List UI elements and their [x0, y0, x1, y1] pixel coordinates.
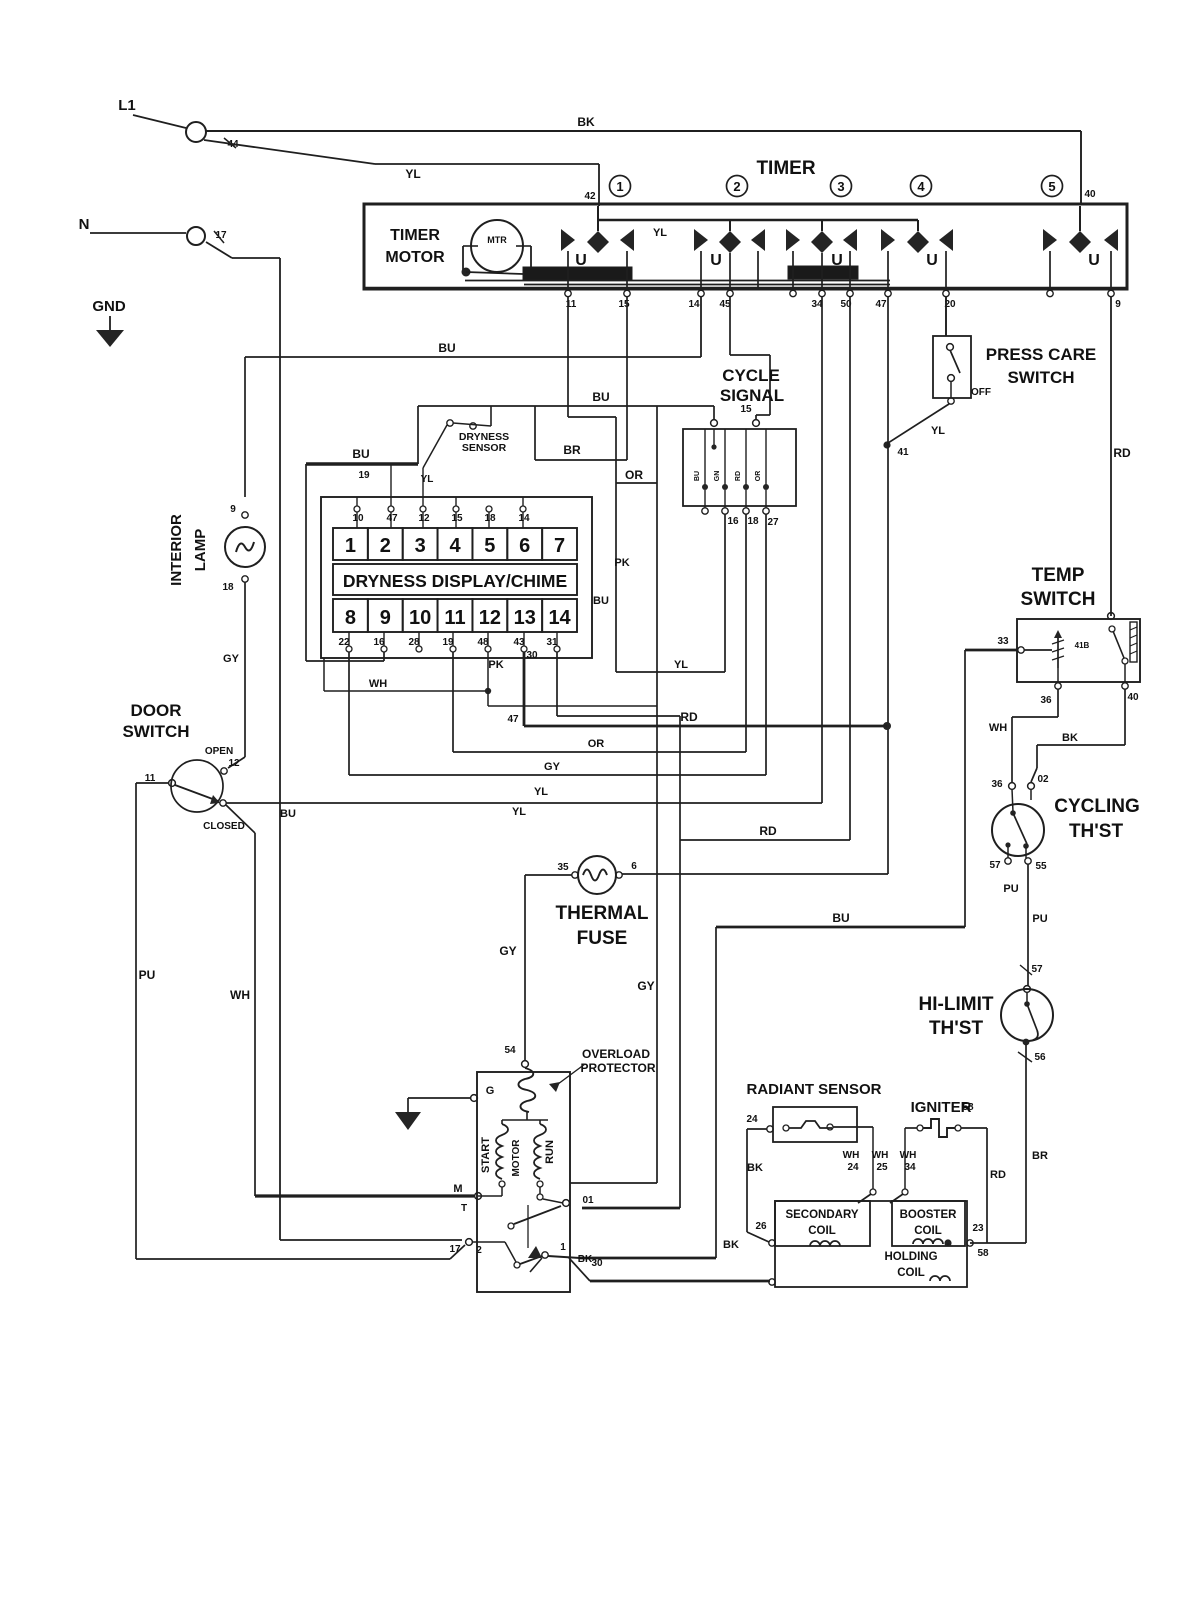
svg-text:L1: L1 [118, 97, 136, 114]
wire RD from timer cam 5 to temp switch [1110, 297, 1112, 616]
svg-text:10: 10 [409, 607, 431, 629]
svg-text:47: 47 [507, 714, 519, 725]
svg-text:6: 6 [519, 535, 530, 557]
motor box [477, 1072, 570, 1292]
svg-text:SWITCH: SWITCH [1021, 589, 1096, 610]
svg-text:12: 12 [479, 607, 501, 629]
svg-text:TEMP: TEMP [1032, 565, 1085, 586]
svg-text:PROTECTOR: PROTECTOR [580, 1061, 655, 1075]
svg-text:U: U [710, 252, 722, 269]
wire YL from press care switch to junction 41 [888, 404, 949, 443]
wire BK from temp switch 40 to cycling thermostat [1124, 689, 1126, 745]
svg-text:PRESS CARE: PRESS CARE [986, 345, 1097, 364]
press care switch SW [945, 297, 947, 336]
timer internal wire YL bus to cam diamonds [599, 219, 918, 221]
svg-text:WH: WH [843, 1150, 860, 1161]
wire OR run cell 11 to cycle signal pin 18 [452, 652, 454, 752]
svg-text:BU: BU [438, 341, 455, 355]
wire RD riser from cam3 to motor run [849, 297, 851, 840]
svg-text:BU: BU [832, 911, 849, 925]
wire from dryness sensor to BU bus [490, 406, 492, 426]
temp switch bottom terminals 36 and 40 [1057, 668, 1059, 682]
svg-text:G: G [486, 1085, 495, 1097]
svg-text:41: 41 [897, 447, 909, 458]
svg-text:18: 18 [222, 582, 234, 593]
wire PU from door switch to motor [136, 782, 169, 784]
svg-text:U: U [1088, 252, 1100, 269]
svg-text:42: 42 [584, 191, 596, 202]
temp switch heater bar [1130, 622, 1137, 662]
svg-text:WH: WH [230, 988, 250, 1002]
motor switch blade 5-01 [514, 1206, 561, 1224]
svg-text:COIL: COIL [808, 1225, 835, 1237]
svg-text:4: 4 [917, 179, 925, 194]
svg-text:U: U [831, 252, 843, 269]
svg-text:SECONDARY: SECONDARY [785, 1209, 858, 1221]
svg-text:14: 14 [548, 607, 571, 629]
svg-text:SWITCH: SWITCH [122, 722, 189, 741]
svg-text:N: N [79, 216, 90, 233]
timer internal contact bus bars [523, 267, 632, 280]
wire igniter left to booster contact [905, 1127, 917, 1129]
wire BK coil box bottom terminal [769, 1279, 775, 1285]
svg-text:YL: YL [931, 425, 945, 437]
svg-text:58: 58 [962, 1102, 974, 1113]
svg-text:BK: BK [723, 1239, 739, 1251]
svg-text:26: 26 [755, 1221, 767, 1232]
thermal fuse [578, 856, 616, 894]
timer cam switch 4 [881, 229, 895, 251]
svg-text:OR: OR [755, 471, 762, 482]
dryness display cells 1-7 [333, 528, 368, 560]
svg-text:GY: GY [223, 653, 240, 665]
label DRYNESS DISPLAY/CHIME bar [333, 564, 577, 595]
temp switch bimetal element [1024, 649, 1052, 651]
svg-text:M: M [453, 1183, 462, 1195]
motor ground G [471, 1095, 478, 1102]
svg-text:BU: BU [280, 808, 296, 820]
svg-text:15: 15 [618, 299, 630, 310]
svg-text:BU: BU [593, 595, 609, 607]
svg-text:YL: YL [405, 167, 420, 181]
svg-text:RD: RD [735, 471, 742, 481]
motor centrifugal actuator arrow [527, 1205, 529, 1248]
svg-text:OPEN: OPEN [205, 746, 233, 757]
svg-text:15: 15 [451, 513, 463, 524]
svg-text:11: 11 [444, 607, 465, 629]
wire BR from hi-limit to booster coil junction [1025, 1044, 1027, 1243]
motor terminal 2 blade [472, 1241, 505, 1243]
svg-text:RD: RD [680, 710, 698, 724]
wire YL run from PK vertical to cycle signal pin 16 [616, 671, 725, 673]
svg-text:19: 19 [358, 470, 370, 481]
wire 33 into temp switch [965, 649, 1017, 652]
svg-text:13: 13 [514, 607, 536, 629]
wire GY long vertical to motor [656, 406, 658, 1183]
svg-text:HOLDING: HOLDING [884, 1251, 937, 1263]
svg-text:RD: RD [1113, 446, 1131, 460]
motor winding terminals and centrifugal switch [499, 1181, 505, 1187]
svg-text:WH: WH [900, 1150, 917, 1161]
svg-text:OR: OR [625, 468, 643, 482]
junction booster coil output [944, 1239, 951, 1246]
wire from timer pin 20 to press care switch [945, 297, 947, 336]
wire from timer pin 15 down [626, 297, 628, 460]
wire BU horizontal to cycle signal [418, 405, 714, 407]
timer cam switch 5 [1043, 229, 1057, 251]
wire 47 from timer pin 47 down through junctions to thermal fuse [887, 297, 889, 872]
svg-text:COIL: COIL [914, 1225, 941, 1237]
svg-text:SWITCH: SWITCH [1007, 368, 1074, 387]
dryness display/chime outer box [321, 497, 592, 658]
svg-text:BU: BU [592, 390, 609, 404]
svg-text:OR: OR [588, 738, 605, 750]
svg-text:28: 28 [408, 637, 420, 648]
wire RD igniter right to coil junction [961, 1127, 987, 1129]
svg-text:47: 47 [386, 513, 398, 524]
svg-text:12: 12 [228, 758, 240, 769]
svg-text:SENSOR: SENSOR [462, 442, 507, 454]
svg-text:58: 58 [977, 1248, 989, 1259]
svg-text:U: U [926, 252, 938, 269]
dryness block top pin stubs and numbers [356, 512, 358, 528]
svg-text:34: 34 [904, 1162, 916, 1173]
svg-text:9: 9 [1115, 299, 1121, 310]
svg-text:YL: YL [421, 474, 434, 485]
svg-text:CYCLE: CYCLE [722, 366, 780, 385]
svg-text:2: 2 [733, 179, 740, 194]
svg-text:GND: GND [92, 298, 126, 315]
svg-text:33: 33 [997, 636, 1009, 647]
svg-text:TH'ST: TH'ST [1069, 821, 1124, 842]
svg-text:BK: BK [577, 115, 595, 129]
svg-text:23: 23 [972, 1223, 984, 1234]
wire GY from thermal fuse to motor overload [525, 874, 572, 876]
wire YL from door closed contact to timer cam3 [226, 802, 822, 804]
svg-text:30: 30 [526, 650, 538, 661]
timer cam numbers circled 1-5 [610, 176, 631, 197]
svg-text:17: 17 [449, 1244, 461, 1255]
svg-text:GY: GY [637, 979, 654, 993]
svg-text:5: 5 [1048, 179, 1055, 194]
svg-text:GY: GY [544, 761, 561, 773]
timer cam switch 2 [694, 229, 708, 251]
svg-text:3: 3 [415, 535, 426, 557]
dryness display cells 8-14 [333, 599, 368, 632]
svg-text:40: 40 [1084, 189, 1096, 200]
door switch blade to closed contact [175, 785, 218, 801]
svg-text:14: 14 [688, 299, 700, 310]
svg-text:COIL: COIL [897, 1267, 924, 1279]
svg-text:START: START [480, 1137, 492, 1173]
wire from timer pin 11 elbow [567, 297, 569, 417]
wire YL riser from cam3 diamond to door switch run [821, 297, 823, 803]
svg-text:CLOSED: CLOSED [203, 821, 245, 832]
svg-text:48: 48 [477, 637, 489, 648]
wire BR jumper [534, 406, 536, 460]
svg-text:18: 18 [747, 516, 759, 527]
svg-text:24: 24 [847, 1162, 859, 1173]
svg-text:36: 36 [991, 779, 1003, 790]
wire PK run cell 12 [487, 652, 489, 706]
svg-text:WH: WH [872, 1150, 889, 1161]
svg-text:57: 57 [1031, 964, 1043, 975]
wire OR jumper [616, 482, 657, 484]
svg-text:WH: WH [989, 722, 1007, 734]
svg-text:DOOR: DOOR [131, 701, 182, 720]
svg-text:1: 1 [616, 179, 623, 194]
wire run cell 14 to motor start winding [556, 652, 558, 716]
svg-text:HI-LIMIT: HI-LIMIT [919, 994, 994, 1015]
wire PK vertical to YL run [615, 417, 617, 672]
wire BK lower to holding coil [569, 1258, 590, 1281]
svg-text:PU: PU [1032, 913, 1047, 925]
svg-text:4: 4 [449, 535, 461, 557]
cycle signal internal lamps [704, 429, 706, 487]
svg-text:YL: YL [653, 227, 667, 239]
wire BU 19 thick jumper [306, 462, 418, 465]
svg-text:18: 18 [484, 513, 496, 524]
svg-text:BU: BU [352, 447, 369, 461]
wire PU from cycling to hi-limit thermostat [1027, 864, 1029, 986]
svg-text:02: 02 [1037, 774, 1049, 785]
svg-text:PK: PK [614, 557, 629, 569]
timer cam switch 3 [786, 229, 800, 251]
wire YL from L1 to timer switch 1 [204, 140, 375, 164]
wire from thermal fuse to timer junction 47 [622, 873, 888, 875]
svg-text:SIGNAL: SIGNAL [720, 386, 784, 405]
dryness block bottom pin stubs and numbers [348, 632, 350, 646]
wire GY from lamp to door switch open contact [244, 582, 246, 757]
wire BK from motor terminal 1 to coil box [548, 1256, 580, 1258]
svg-text:5: 5 [484, 535, 495, 557]
wire WH neutral from N down left side to motor terminal 2 [206, 242, 232, 258]
svg-text:22: 22 [338, 637, 350, 648]
secondary coil [775, 1201, 870, 1246]
svg-text:PK: PK [488, 659, 503, 671]
svg-text:24: 24 [746, 1114, 758, 1125]
svg-text:FUSE: FUSE [577, 928, 628, 949]
svg-text:TH'ST: TH'ST [929, 1018, 984, 1039]
svg-text:MOTOR: MOTOR [511, 1139, 522, 1177]
svg-text:OFF: OFF [971, 387, 991, 398]
wire 01 from motor centrifugal switch [582, 1207, 680, 1210]
wire WH from door closed contact to motor [226, 805, 255, 833]
svg-text:CYCLING: CYCLING [1054, 796, 1140, 817]
svg-text:RUN: RUN [544, 1140, 556, 1164]
coil assembly outer box [775, 1201, 967, 1287]
wire from pin 47 up to BU bus [390, 464, 392, 506]
temp switch selector blade [1109, 626, 1115, 632]
svg-text:MOTOR: MOTOR [385, 249, 445, 266]
svg-text:56: 56 [1034, 1052, 1046, 1063]
svg-text:YL: YL [534, 786, 548, 798]
svg-text:U: U [575, 252, 587, 269]
svg-text:27: 27 [767, 517, 779, 528]
svg-text:RD: RD [990, 1169, 1006, 1181]
svg-text:YL: YL [512, 806, 526, 818]
wire BK radiant sensor left to secondary coil [747, 1128, 767, 1130]
svg-text:LAMP: LAMP [192, 529, 209, 572]
svg-text:BOOSTER: BOOSTER [900, 1209, 958, 1221]
svg-text:6: 6 [631, 861, 637, 872]
svg-text:9: 9 [230, 504, 236, 515]
wire YL from pin 12 to dryness sensor [422, 468, 424, 506]
svg-text:35: 35 [557, 862, 569, 873]
svg-text:47: 47 [875, 299, 887, 310]
svg-text:RADIANT SENSOR: RADIANT SENSOR [746, 1081, 881, 1098]
svg-text:BK: BK [578, 1254, 593, 1265]
svg-text:GN: GN [714, 471, 721, 482]
svg-text:OVERLOAD: OVERLOAD [582, 1047, 650, 1061]
svg-text:9: 9 [380, 607, 391, 629]
svg-text:30: 30 [591, 1258, 603, 1269]
svg-text:3: 3 [837, 179, 844, 194]
wire BU from timer pin 14 down to door switch [700, 297, 702, 357]
svg-text:16: 16 [373, 637, 385, 648]
wire RD run cell 13 to thermal fuse junction [523, 652, 526, 726]
svg-text:2: 2 [380, 535, 391, 557]
svg-text:DRYNESS DISPLAY/CHIME: DRYNESS DISPLAY/CHIME [343, 571, 567, 591]
svg-text:T: T [461, 1203, 467, 1214]
svg-text:RD: RD [759, 824, 777, 838]
svg-text:54: 54 [504, 1045, 516, 1056]
svg-text:BK: BK [1062, 732, 1078, 744]
svg-text:41B: 41B [1075, 641, 1090, 650]
svg-text:55: 55 [1035, 861, 1047, 872]
cycle signal bottom terminals 16 18 27 [704, 490, 706, 508]
svg-text:GY: GY [499, 944, 516, 958]
wire WH jumper under dryness block [323, 658, 325, 691]
svg-text:15: 15 [740, 404, 752, 415]
timer cam switch 1 [561, 229, 575, 251]
svg-text:19: 19 [442, 637, 454, 648]
svg-text:43: 43 [513, 637, 525, 648]
svg-text:THERMAL: THERMAL [556, 903, 649, 924]
svg-text:14: 14 [518, 513, 530, 524]
svg-text:TIMER: TIMER [390, 227, 440, 244]
wire from timer pin 45 to cycle signal [729, 297, 731, 355]
svg-text:36: 36 [1040, 695, 1052, 706]
svg-text:7: 7 [554, 535, 565, 557]
wire BU from motor run to temp switch 33 [715, 927, 717, 1258]
wire BK from L1 to timer (top) [206, 130, 1081, 132]
wire radiant sensor right to secondary contact [833, 1126, 873, 1128]
svg-text:WH: WH [369, 678, 387, 690]
svg-text:PU: PU [1003, 883, 1018, 895]
svg-text:1: 1 [345, 535, 356, 557]
svg-text:1: 1 [560, 1242, 566, 1253]
svg-text:01: 01 [582, 1195, 594, 1206]
svg-text:INTERIOR: INTERIOR [168, 514, 185, 586]
wire RD run from timer to motor junction [680, 839, 850, 841]
timer terminal circles and pin numbers below box [565, 290, 571, 296]
svg-text:MTR: MTR [487, 235, 507, 245]
timer assembly box [364, 204, 1127, 289]
svg-text:BR: BR [563, 443, 581, 457]
svg-text:10: 10 [352, 513, 364, 524]
svg-text:40: 40 [1127, 692, 1139, 703]
svg-text:BK: BK [747, 1162, 763, 1174]
motor internal top bus from overload [526, 1112, 528, 1120]
svg-text:TIMER: TIMER [756, 158, 815, 179]
svg-text:12: 12 [418, 513, 430, 524]
svg-text:16: 16 [727, 516, 739, 527]
wire WH from temp switch 36 to cycling thermostat [1057, 689, 1059, 717]
svg-text:8: 8 [345, 607, 356, 629]
svg-text:YL: YL [674, 659, 688, 671]
svg-text:PU: PU [139, 968, 156, 982]
wire GY run cell 8 to cycle signal pin 27 [348, 652, 350, 775]
svg-text:25: 25 [876, 1162, 888, 1173]
booster coil [892, 1201, 965, 1246]
svg-text:BR: BR [1032, 1150, 1048, 1162]
svg-text:31: 31 [546, 637, 558, 648]
svg-text:57: 57 [989, 860, 1001, 871]
svg-text:BU: BU [694, 471, 701, 481]
timer bottom edge (thick bus) [364, 287, 1127, 290]
